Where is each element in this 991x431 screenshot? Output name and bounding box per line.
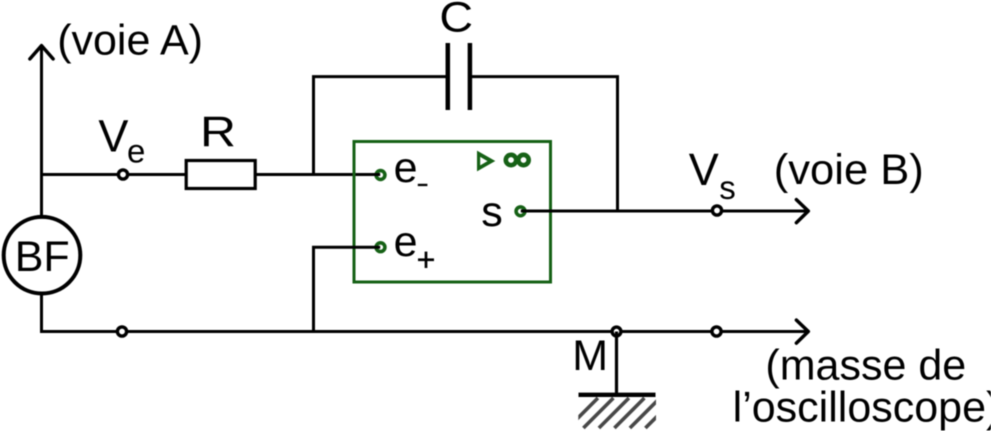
svg-text:l’oscilloscope): l’oscilloscope): [733, 384, 991, 431]
resistor R: [186, 161, 255, 189]
svg-text:C: C: [439, 0, 473, 41]
svg-text:e: e: [127, 132, 145, 169]
svg-text:R: R: [200, 108, 236, 156]
svg-text:(voie B): (voie B): [774, 146, 924, 194]
wire M to ground symbol: [615, 332, 618, 396]
capacitor C plate left: [446, 43, 451, 110]
svg-text:V: V: [98, 111, 128, 162]
op-amp infinity symbol: [506, 155, 516, 165]
svg-text:M: M: [572, 332, 608, 380]
svg-text:s: s: [719, 169, 736, 206]
wire BF to ground bus: [40, 294, 43, 333]
node Ve: [118, 170, 127, 179]
op-amp gain triangle: [477, 151, 495, 172]
node Vs: [712, 206, 721, 215]
node M: [612, 327, 621, 336]
pin e-: [376, 171, 385, 180]
wire input: [40, 173, 380, 176]
svg-text:BF: BF: [15, 233, 70, 281]
svg-text:(masse de: (masse de: [765, 342, 966, 390]
pin s: [516, 207, 525, 216]
svg-text:e: e: [394, 144, 418, 192]
wire ground bus: [40, 330, 806, 333]
ground hatching: [568, 398, 691, 428]
svg-text:V: V: [689, 144, 719, 195]
node below Ve: [117, 327, 126, 336]
generator BF: [4, 217, 81, 294]
pin e+: [376, 243, 385, 252]
wire e+ to ground bus: [314, 247, 381, 333]
wire output: [521, 210, 806, 213]
arrowhead voie A up: [30, 46, 53, 59]
ground bar: [579, 393, 656, 397]
op-amp U1 box: [354, 142, 551, 283]
wire feedback right: [472, 77, 618, 211]
node below Vs: [712, 327, 721, 336]
wire voie A vertical lead: [40, 47, 43, 217]
svg-text:(voie A): (voie A): [57, 17, 203, 65]
wire feedback left: [314, 77, 447, 175]
capacitor C plate right: [468, 43, 473, 110]
arrowhead output right: [796, 200, 808, 223]
svg-text:e: e: [394, 218, 418, 266]
svg-text:s: s: [481, 188, 503, 236]
arrowhead ground bus right: [796, 320, 808, 343]
